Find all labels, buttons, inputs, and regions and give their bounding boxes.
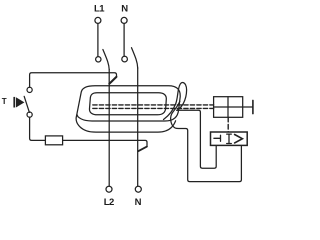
- wire N load (through core to bottom N): [137, 68, 139, 186]
- terminal N top: [121, 17, 127, 23]
- detector symbol greater-than: [235, 135, 243, 143]
- core toroid outer face: [77, 86, 180, 121]
- mechanical link dashed: [227, 117, 229, 132]
- wire L1 supply: [97, 24, 99, 57]
- wire resistor to N load: [63, 140, 147, 146]
- core flux dashed line upper: [93, 104, 214, 106]
- resistor (test): [45, 136, 62, 145]
- test contact upper: [27, 87, 32, 92]
- svg-text:T: T: [2, 97, 7, 106]
- test contact lower: [27, 112, 32, 117]
- svg-text:N: N: [135, 197, 142, 206]
- wire test lower to resistor: [30, 117, 46, 140]
- contact L1 fixed: [96, 57, 101, 62]
- terminal L1: [95, 17, 101, 23]
- winding turn B riser: [171, 102, 180, 121]
- terminal L2: [106, 186, 112, 192]
- junction arrow on L1 load wire: [109, 77, 116, 84]
- winding turn A: [164, 82, 187, 119]
- wire L1 load (through core to L2): [108, 70, 110, 187]
- release magnet armature T-bar: [252, 100, 254, 113]
- detector symbol I: [227, 134, 232, 143]
- release magnet U1 box: [214, 97, 243, 118]
- detector I> box: [211, 132, 248, 145]
- test button actuator triangle: [16, 97, 25, 107]
- winding wire to detector right pin: [171, 120, 242, 181]
- svg-text:L1: L1: [94, 3, 105, 14]
- junction arrow on N load wire: [138, 147, 147, 152]
- wire test upper to L1 load: [30, 73, 117, 88]
- wire N supply: [123, 24, 125, 57]
- core toroid lower rim: [76, 115, 175, 133]
- detector symbol tack: [214, 135, 221, 141]
- svg-text:N: N: [121, 3, 128, 14]
- release magnet armature pin: [243, 106, 253, 108]
- terminal N bottom: [135, 186, 141, 192]
- test button plunger bar: [13, 97, 15, 108]
- release magnet divider vertical: [227, 97, 229, 118]
- release magnet midline horizontal: [214, 106, 243, 108]
- core toroid inner hole: [89, 93, 166, 115]
- svg-text:L2: L2: [104, 197, 114, 206]
- winding wire to detector left pin: [177, 110, 216, 168]
- contact N fixed: [122, 56, 128, 62]
- switch blade L1: [103, 50, 109, 70]
- core flux dashed line lower: [93, 107, 214, 109]
- test switch blade: [24, 96, 29, 112]
- switch blade N: [132, 48, 138, 68]
